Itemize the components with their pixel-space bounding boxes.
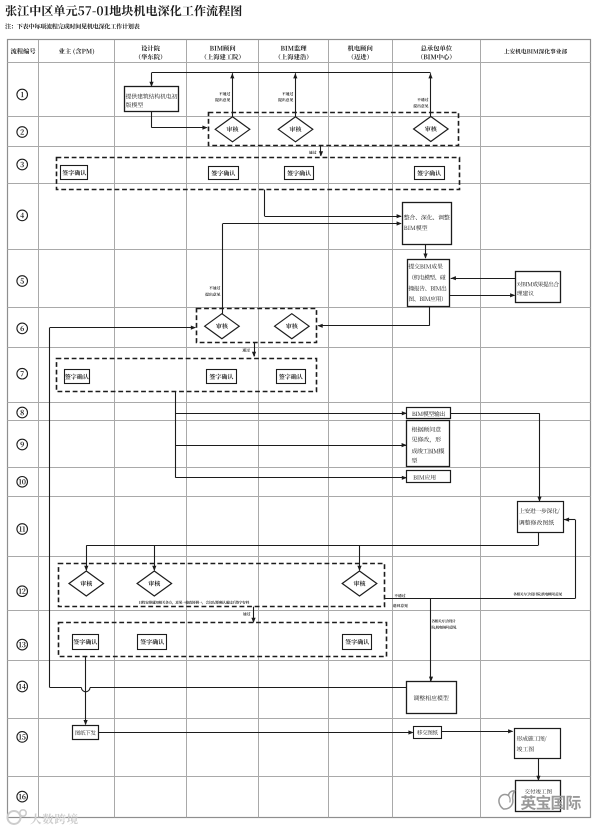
decision 审核 row12-3 [342, 571, 377, 596]
dashed group row3 sign-off [57, 158, 460, 190]
note 注：下表中每项流程完成时间见机电深化工作计划表 [5, 23, 139, 29]
step number 4 [17, 210, 28, 221]
wire into model box top [149, 73, 153, 87]
decision 审核 row6-1 [205, 314, 240, 339]
box 签字确认 row3 BIM监理 [285, 167, 314, 180]
decision 审核 row12-2 [137, 571, 172, 596]
header 流程编号 [11, 48, 36, 54]
wire bus drop 1 [84, 546, 88, 572]
box 签字确认 row3 总承包 [415, 167, 445, 180]
step number 8 [17, 407, 28, 418]
wire row13 to 图纸下发 [84, 657, 88, 726]
wire row3 to integrate box [265, 190, 402, 219]
process box 移交图纸 [414, 727, 442, 739]
process box 提交BIM成果 [408, 260, 450, 307]
wire bus drop 3 [357, 546, 361, 572]
process box 整合深化调整BIM模型 [403, 203, 452, 245]
box 签字确认 row13 设计院 [138, 635, 167, 650]
step number 9 [17, 439, 28, 450]
step number 6 [17, 323, 28, 334]
wire submit to advice [450, 293, 515, 297]
wire fail return from review 3 [428, 73, 432, 117]
wire BIM模型输出 to 上安 box [450, 413, 541, 502]
box 签字确认 row13 业主 [73, 635, 99, 650]
header 上安机电BIM深化事业部 [504, 49, 567, 54]
header 设计院（华东院） [139, 45, 162, 60]
box 签字确认 row3 BIM顾问 [209, 167, 239, 180]
label 通过 row2 [309, 151, 316, 155]
step number 2 [17, 127, 28, 138]
process box 提供建筑结构机电初版模型 [125, 87, 179, 112]
label 不通过/退回意见 row12 [393, 594, 408, 608]
wire row7 down trunk [175, 391, 177, 478]
wire fail return into 上安 box [564, 518, 576, 599]
step number 13 [17, 639, 28, 650]
label 通过 row12 [243, 612, 250, 616]
wire submit to review row6 [318, 306, 430, 328]
wire 图纸下发 to 移交图纸 [99, 730, 414, 734]
header 总承包单位（BIM中心） [421, 45, 452, 60]
decision 审核 row12-1 [69, 571, 104, 596]
step number 15 [17, 732, 28, 743]
step number 14 [17, 681, 28, 692]
box 签字确认 row7 BIM顾问 [207, 370, 237, 384]
step number 7 [17, 368, 28, 379]
label 通过 row6 [242, 348, 249, 352]
header 业主（含PM） [59, 48, 94, 55]
step number 3 [17, 159, 28, 170]
dashed group row6 review [197, 309, 317, 343]
header 机电顾问（迈进） [348, 45, 373, 60]
process box BIM模型输出 [407, 408, 451, 419]
wire 通过 row2 to row3 [319, 145, 323, 156]
process box 上安进一步深化调整修改图纸 [518, 502, 564, 533]
process box 形成施工图竣工图 [515, 729, 561, 759]
watermark bird logo 英宝国际 [499, 791, 581, 810]
label 各相关方意见 row12 right [513, 592, 562, 596]
wire fail return from review 2 [293, 73, 297, 117]
wire bus drop 2 [152, 546, 156, 572]
wire trunk to 根据顾问意见 box [176, 443, 407, 447]
label 不通过/提出意见 row5 [205, 286, 220, 296]
decision 审核 row2-3 [414, 117, 449, 142]
dashed group row12 review [59, 564, 385, 607]
box 签字确认 row3 业主 [61, 166, 88, 180]
header BIM监理（上海建浩） [279, 45, 309, 60]
wire trunk to BIM模型输出 [176, 411, 407, 415]
title 张江中区单元57-01地块机电深化工作流程图 [5, 5, 241, 16]
process box 对BIM成果提出合理建议 [516, 272, 561, 303]
step number 10 [17, 477, 28, 488]
wire feedback top line [152, 72, 431, 74]
header BIM顾问（上海建工院） [205, 45, 241, 60]
label 各相关方意见 row12 mid [432, 619, 457, 629]
decision 审核 row2-2 [278, 117, 313, 142]
wire 形成施工图 to 交付竣工图 [536, 758, 540, 781]
wire 通过 row6 to row7 [252, 342, 256, 357]
watermark 大数跨境 logo [8, 810, 78, 825]
process box 根据顾问意见修改形成竣工BIM模型 [407, 421, 450, 467]
wire 上安 box to row12 bus [86, 533, 538, 546]
box 签字确认 row13 机电顾问 [343, 635, 372, 650]
box 签字确认 row7 业主 [65, 370, 90, 384]
wire 移交图纸 to 形成施工图 [441, 729, 513, 733]
process box 调整相应模型 [407, 682, 457, 714]
decision 审核 row2-1 [215, 117, 250, 142]
step number 11 [17, 524, 28, 535]
step number 16 [17, 791, 28, 802]
label 不通过/提出意见 1 [215, 92, 230, 102]
wire review6 fail to integrate box [223, 221, 402, 313]
wire fail to 调整相应模型 [429, 599, 433, 682]
box 签字确认 row7 BIM监理 [277, 370, 306, 384]
step number 5 [17, 276, 28, 287]
wire integrate to submit box [423, 244, 427, 258]
dashed group row7 sign-off [57, 359, 317, 392]
dashed group row13 sign-off [59, 623, 387, 657]
dashed group row2 review [209, 113, 459, 146]
label 不通过/提出意见 3 [413, 98, 428, 108]
step number 12 [17, 586, 28, 597]
wire row12 fail line [384, 598, 575, 600]
process box BIM应用 [407, 471, 451, 483]
wire trunk to BIM应用 box [176, 476, 407, 480]
wire adjust model loop into row6 [50, 326, 407, 692]
wire 通过 row12 to row13 [251, 607, 255, 623]
label row12 annotation [139, 601, 249, 605]
process box 交付竣工图 [516, 781, 561, 812]
step number 1 [17, 89, 28, 100]
wire fail return from review 1 [230, 73, 234, 117]
label 不通过/提出意见 2 [278, 92, 293, 102]
process box 图纸下发 [73, 726, 99, 740]
wire model box to review group [152, 112, 208, 130]
decision 审核 row6-2 [275, 314, 310, 339]
wire advice to submit [451, 276, 516, 280]
